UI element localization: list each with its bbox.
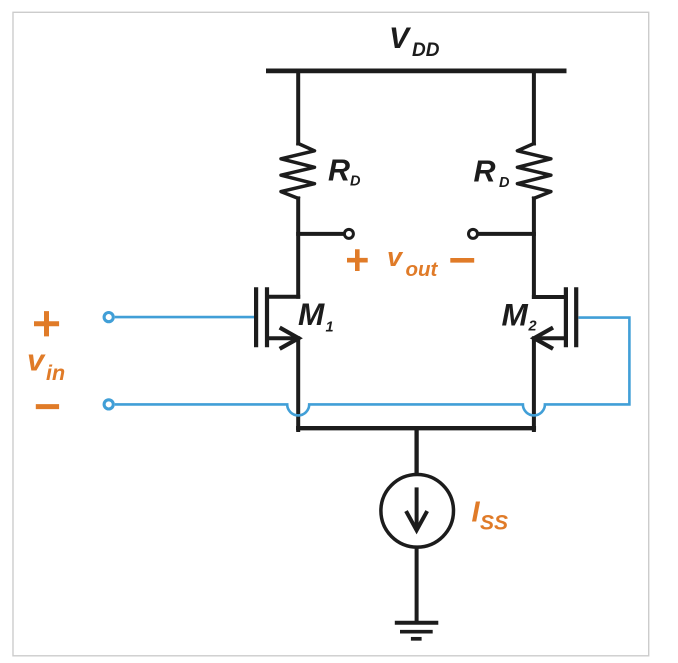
- svg-text:v: v: [27, 343, 46, 378]
- label + (vin): [34, 311, 59, 336]
- svg-text:D: D: [499, 175, 510, 191]
- svg-text:2: 2: [528, 319, 537, 335]
- transistor M2: [534, 287, 576, 348]
- transistor M1: [256, 287, 299, 348]
- label + (vout): [347, 249, 368, 271]
- svg-text:out: out: [406, 258, 439, 281]
- label RD (left): [328, 153, 361, 189]
- wire: vin+ input (blue): [115, 316, 254, 319]
- node vin- terminal: [104, 400, 113, 409]
- label - (vout): [450, 258, 474, 263]
- label ISS: [472, 496, 509, 534]
- wire: current source to ground: [415, 549, 419, 623]
- svg-text:R: R: [474, 155, 496, 189]
- wire: vin- input to M2 gate (blue): [115, 318, 630, 416]
- label vin: [27, 343, 65, 385]
- node vin+ terminal: [104, 313, 113, 322]
- label M1: [298, 296, 334, 335]
- wire: rail to left resistor: [296, 71, 300, 144]
- svg-text:R: R: [328, 153, 350, 187]
- label VDD: [389, 22, 440, 61]
- node vout- terminal: [469, 229, 478, 238]
- svg-text:M: M: [298, 296, 325, 332]
- wire: vout+ tap: [298, 232, 343, 236]
- label M2: [502, 296, 537, 334]
- wire: source join bus: [298, 428, 534, 473]
- svg-text:in: in: [46, 361, 65, 385]
- wire: vout- tap: [478, 232, 534, 236]
- wire: M2 source down: [532, 338, 536, 430]
- svg-text:V: V: [389, 22, 412, 55]
- resistor RD (left): [281, 144, 315, 199]
- power rail VDD: [266, 69, 567, 74]
- node vout+ terminal: [344, 229, 353, 238]
- current source ISS: [381, 475, 454, 548]
- wire: rail to right resistor: [532, 71, 536, 144]
- wire: left resistor to M1 drain: [296, 198, 300, 296]
- svg-text:SS: SS: [480, 512, 508, 535]
- svg-text:D: D: [350, 174, 361, 190]
- label - (vin): [36, 404, 59, 409]
- svg-text:v: v: [387, 242, 404, 272]
- svg-text:DD: DD: [412, 40, 440, 61]
- ground: [395, 623, 439, 639]
- svg-text:1: 1: [326, 319, 334, 335]
- label RD (right): [474, 155, 511, 191]
- wire: right resistor to M2 drain: [532, 198, 536, 297]
- wire: M1 source down: [296, 338, 300, 430]
- label vout: [387, 242, 439, 281]
- svg-text:M: M: [502, 296, 529, 332]
- resistor RD (right): [517, 144, 551, 199]
